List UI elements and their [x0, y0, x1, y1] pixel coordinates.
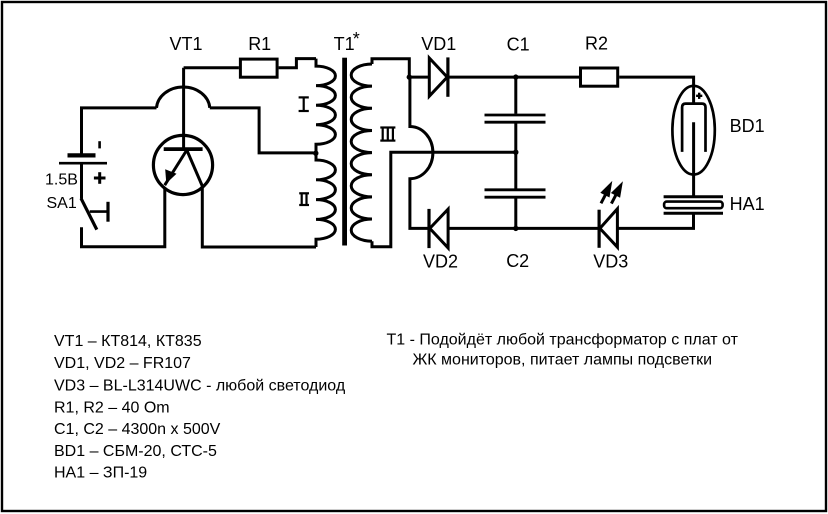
- svg-text:R1, R2 – 40 Om: R1, R2 – 40 Om: [54, 399, 170, 416]
- svg-text:VD3 – BL-L314UWC - любой свето: VD3 – BL-L314UWC - любой светодиод: [54, 378, 346, 395]
- wire winding III bottom to C mid: [372, 152, 516, 247]
- svg-text:R1: R1: [248, 34, 271, 54]
- wire switch to emitter: [82, 188, 165, 247]
- wire C1 bottom to C2 top: [514, 123, 517, 188]
- geiger tube BD1: [672, 86, 714, 197]
- svg-text:SA1: SA1: [47, 195, 77, 212]
- svg-text:VT1 – КТ814, КТ835: VT1 – КТ814, КТ835: [54, 333, 202, 350]
- winding numeral I: [299, 97, 309, 111]
- svg-text:BD1 – СБМ-20, СТС-5: BD1 – СБМ-20, СТС-5: [54, 443, 217, 460]
- svg-text:C1: C1: [507, 34, 530, 54]
- wire battery- to switch: [80, 163, 83, 198]
- node C2 bottom: [513, 226, 518, 231]
- wire R1 to winding I: [279, 59, 316, 68]
- svg-text:HA1 – ЗП-19: HA1 – ЗП-19: [54, 465, 147, 482]
- wire winding III top to VD1: [372, 59, 409, 77]
- svg-text:C2: C2: [506, 251, 529, 271]
- svg-text:C1, C2 – 4300n x 500V: C1, C2 – 4300n x 500V: [54, 421, 221, 438]
- switch SA1: [81, 198, 108, 229]
- wire hop to center tap: [210, 108, 314, 153]
- winding numeral III: [380, 128, 395, 141]
- wire C1 top: [514, 77, 517, 114]
- svg-text:VD2: VD2: [423, 251, 458, 271]
- parts list: [54, 333, 346, 482]
- wire battery+ to hop: [82, 108, 157, 155]
- note T1: [387, 331, 739, 368]
- resistor R1: [240, 59, 277, 77]
- wire VD1 to R2: [448, 76, 579, 79]
- svg-text:VT1: VT1: [170, 34, 203, 54]
- svg-text:VD1, VD2 – FR107: VD1, VD2 – FR107: [54, 355, 191, 372]
- svg-text:VD3: VD3: [593, 251, 628, 271]
- resistor R2: [581, 68, 618, 86]
- transistor VT1: [153, 68, 212, 195]
- wire R2 to BD1: [619, 77, 693, 104]
- svg-text:ЖК мониторов, питает лампы под: ЖК мониторов, питает лампы подсветки: [413, 351, 713, 368]
- diode VD2: [429, 209, 448, 248]
- capacitor C1: [485, 115, 546, 122]
- sounder HA1: [664, 197, 723, 214]
- svg-text:BD1: BD1: [730, 116, 765, 136]
- capacitor C2: [485, 190, 546, 197]
- wire hop over base lead: [157, 87, 210, 108]
- node VD1 junction: [407, 74, 412, 79]
- wire collector to winding II: [202, 186, 316, 247]
- svg-text:VD1: VD1: [421, 34, 456, 54]
- svg-text:HA1: HA1: [730, 194, 765, 214]
- wire VD2 to VD3: [448, 227, 599, 230]
- svg-text:Т1 - Подойдёт любой трансформа: Т1 - Подойдёт любой трансформатор с плат…: [387, 331, 739, 348]
- battery GB 1.5V: [59, 141, 107, 184]
- transformer T1: [316, 58, 372, 247]
- diode VD1: [429, 57, 448, 96]
- svg-text:T1: T1: [334, 34, 355, 54]
- svg-text:R2: R2: [585, 34, 608, 54]
- winding numeral II: [299, 193, 309, 205]
- LED VD3: [599, 181, 623, 248]
- wire C2 bottom: [514, 198, 517, 228]
- svg-text:1.5В: 1.5В: [45, 172, 78, 189]
- node C1 top: [513, 74, 518, 79]
- wire junction to VD1: [409, 76, 429, 79]
- wire base to R1: [184, 66, 239, 69]
- svg-text:*: *: [353, 29, 360, 49]
- node center tap: [313, 151, 318, 156]
- wire VD3 to HA1: [617, 213, 693, 228]
- node C mid: [513, 150, 518, 155]
- wire junction down with hop to VD2: [410, 77, 433, 228]
